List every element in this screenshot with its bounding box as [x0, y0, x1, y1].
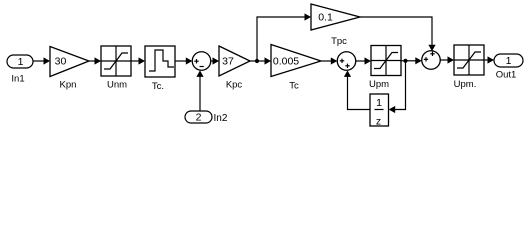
- wire In2 to sum1: [196, 70, 203, 111]
- wire Upm to sum3: [401, 57, 422, 64]
- gain Kpn: [50, 47, 89, 91]
- input port In1: [7, 55, 33, 85]
- wire feedback down to unit delay: [389, 61, 406, 113]
- svg-text:1: 1: [376, 97, 382, 109]
- svg-text:Out1: Out1: [496, 70, 517, 81]
- wire unit delay to sum2: [344, 70, 370, 109]
- svg-text:Unm: Unm: [107, 80, 127, 91]
- wire In1 to Kpn: [33, 57, 50, 64]
- wire branch up to Tpc: [257, 13, 311, 61]
- svg-text:30: 30: [55, 56, 67, 68]
- wire Tc. to sum1: [175, 57, 192, 64]
- saturation Upm: [369, 46, 401, 91]
- svg-text:1: 1: [18, 56, 24, 68]
- junction node after Upm: [403, 59, 407, 63]
- sum junction 1: [192, 52, 211, 71]
- svg-text:37: 37: [222, 56, 234, 68]
- svg-text:In1: In1: [11, 74, 24, 85]
- saturation Unm: [101, 46, 131, 91]
- gain Tpc: [311, 4, 360, 47]
- wire sum1 to Kpc: [211, 57, 219, 64]
- wire sum3 to Upm.: [440, 56, 454, 63]
- svg-text:Kpc: Kpc: [226, 80, 243, 91]
- wire sum2 to Upm: [356, 57, 371, 64]
- svg-text:0.005: 0.005: [273, 56, 299, 68]
- svg-text:0.1: 0.1: [318, 12, 333, 24]
- svg-text:2: 2: [196, 112, 202, 124]
- sum junction 2: [337, 52, 356, 71]
- wire Tc to sum2: [321, 57, 337, 64]
- zero-order hold Tc.: [145, 46, 175, 92]
- unit delay 1/z: [370, 94, 389, 128]
- svg-text:z: z: [376, 116, 381, 128]
- wire Kpn to Unm: [89, 57, 101, 64]
- wire Upm. to Out1: [484, 56, 494, 63]
- svg-text:Tpc: Tpc: [331, 36, 347, 47]
- output port Out1: [494, 54, 523, 81]
- sum junction 3: [422, 51, 441, 70]
- svg-text:In2: In2: [214, 113, 228, 124]
- wire Unm to Tc.: [131, 57, 145, 64]
- gain Kpc: [219, 46, 250, 91]
- wire Kpc to Tc gain with branch: [250, 57, 271, 64]
- wire Tpc to sum3: [360, 17, 436, 51]
- svg-text:1: 1: [506, 55, 512, 67]
- svg-text:Tc.: Tc.: [152, 81, 164, 92]
- svg-text:Upm: Upm: [369, 79, 389, 90]
- gain Tc: [271, 45, 321, 92]
- svg-text:Upm.: Upm.: [454, 79, 477, 90]
- svg-text:Kpn: Kpn: [60, 80, 77, 91]
- svg-text:Tc: Tc: [289, 81, 299, 92]
- input port In2: [185, 111, 228, 124]
- saturation Upm.: [454, 45, 484, 90]
- junction node after Kpc: [255, 59, 259, 63]
